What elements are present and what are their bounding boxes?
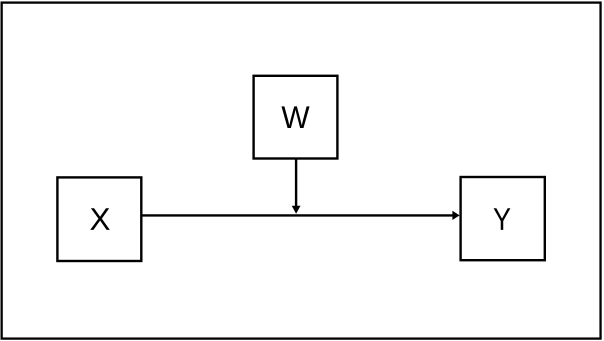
box X (predictor) (57, 177, 141, 261)
label W (281, 106, 309, 128)
arrowhead into Y (452, 211, 459, 220)
box Y (outcome) (461, 177, 545, 260)
arrowhead onto X-Y wire (292, 206, 301, 214)
label X (90, 208, 110, 230)
label Y (494, 208, 511, 230)
wire X to Y (142, 214, 453, 216)
box W (moderator) (254, 76, 338, 159)
wire W down to X-Y path (295, 159, 297, 207)
